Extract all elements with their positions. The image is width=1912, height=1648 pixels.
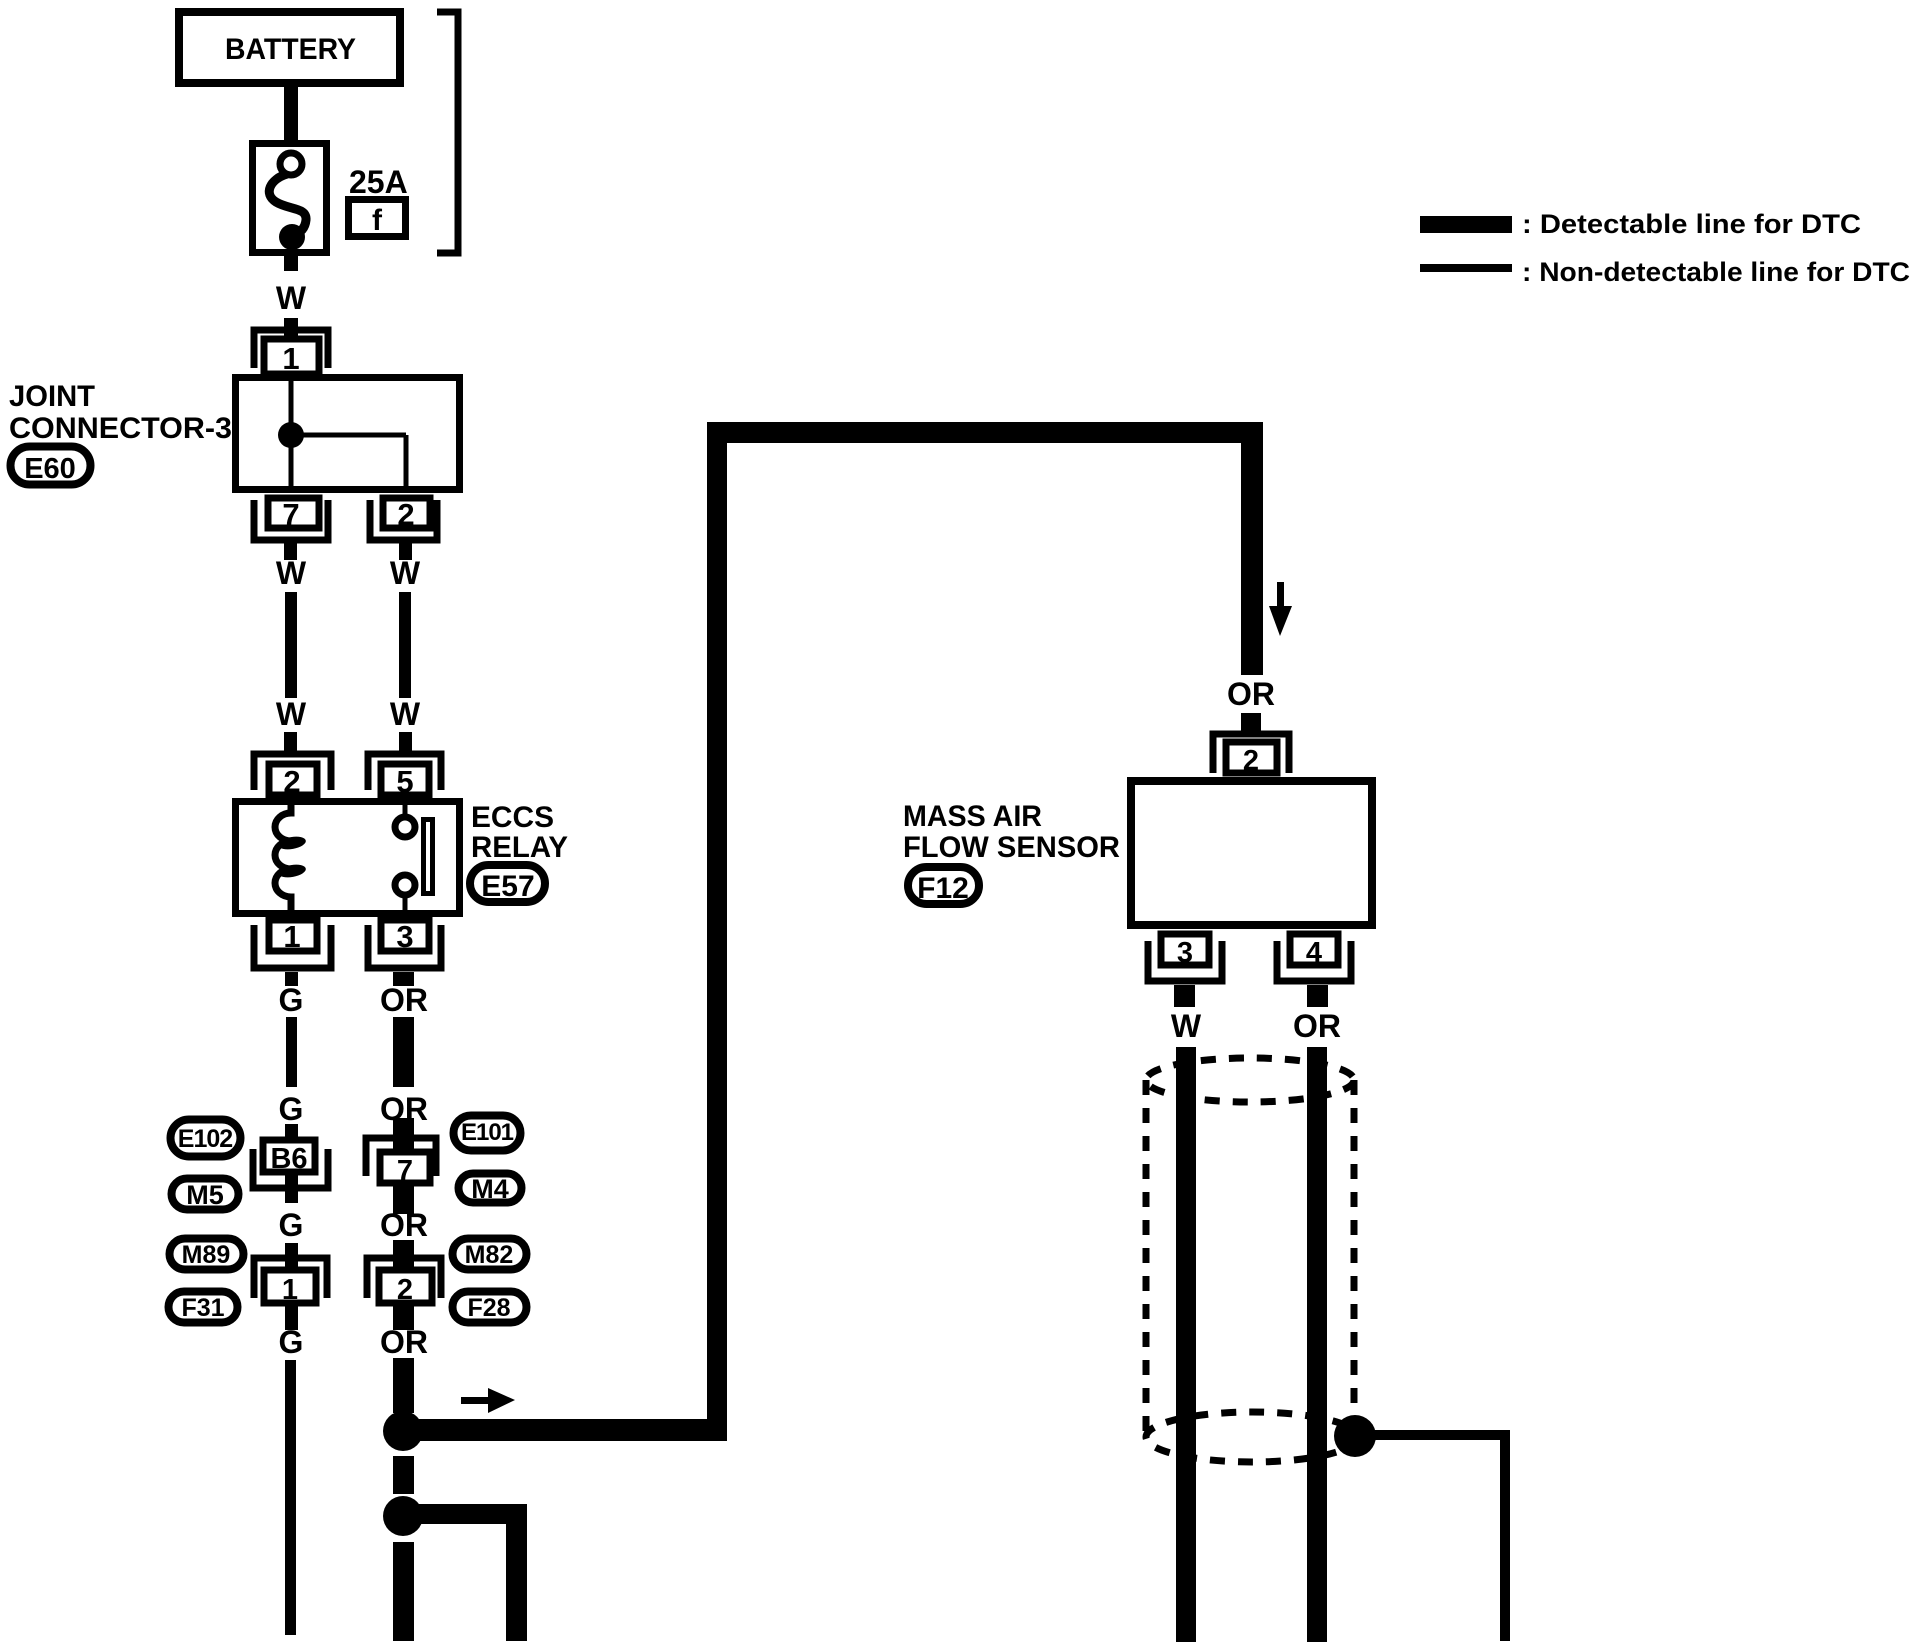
connector id oval F28	[453, 1292, 527, 1323]
svg-text:W: W	[390, 555, 421, 591]
connector 2 box	[379, 1270, 432, 1306]
svg-text:G: G	[279, 982, 304, 1018]
connector id oval E57	[470, 865, 545, 903]
mafs pin 3 shell bracket	[1148, 941, 1222, 981]
wire G stub into B6	[285, 1124, 298, 1140]
svg-text:OR: OR	[380, 1324, 428, 1360]
svg-text:G: G	[279, 1324, 304, 1360]
junction node dot 1	[383, 1411, 423, 1451]
wire G stub below relay pin 1	[285, 972, 298, 986]
wire OR thick long mafs	[1307, 1047, 1327, 1642]
wire OR thick vertical drop	[506, 1504, 527, 1641]
wire G stub below B6	[285, 1175, 298, 1203]
wire G stub below 1	[285, 1306, 298, 1330]
svg-text:OR: OR	[1227, 676, 1275, 712]
svg-text:M5: M5	[186, 1180, 224, 1210]
connector id oval M82	[453, 1239, 527, 1270]
connector B6 box	[263, 1140, 315, 1175]
wire OR stub below mafs pin 4	[1307, 985, 1328, 1007]
svg-text:W: W	[1171, 1008, 1202, 1044]
wire OR thick	[393, 1017, 414, 1087]
joint connector pin 2 box	[383, 497, 430, 532]
svg-text:E57: E57	[481, 870, 534, 903]
connector id oval F31	[169, 1292, 238, 1323]
label MASS AIR FLOW SENSOR	[903, 800, 1120, 864]
wire between junction dots	[393, 1456, 414, 1494]
joint connector-3 body box	[236, 378, 460, 490]
connector id oval M5	[172, 1179, 239, 1211]
wire OR stub below relay pin 3 (thick detectable)	[393, 972, 414, 986]
eccs relay pin 1 box	[269, 919, 317, 954]
connector 7 shell bracket	[366, 1138, 436, 1176]
svg-text:2: 2	[397, 497, 414, 532]
wire to joint connector pin 1	[284, 318, 298, 336]
svg-text:OR: OR	[1293, 1008, 1341, 1044]
mafs pin 4 shell bracket	[1277, 941, 1351, 981]
mafs pin 4 box	[1290, 934, 1338, 969]
wire W stub to relay pin 2	[284, 732, 297, 752]
wire OR thick horizontal top	[707, 422, 1263, 443]
wire W stub below mafs pin 3	[1174, 985, 1195, 1007]
svg-text:CONNECTOR-3: CONNECTOR-3	[9, 412, 232, 445]
wire G	[286, 1017, 297, 1087]
svg-text:MASS AIR: MASS AIR	[903, 800, 1042, 833]
wire OR stub below 7	[393, 1186, 414, 1214]
connector id oval E60	[11, 447, 91, 486]
connector 2 shell bracket	[367, 1258, 441, 1298]
shield ground wire thin	[1360, 1435, 1505, 1641]
svg-text:FLOW SENSOR: FLOW SENSOR	[903, 831, 1120, 864]
wire OR thick horizontal from junction 2	[403, 1504, 527, 1524]
wire OR stub to MAFS pin 2	[1241, 713, 1261, 733]
svg-text:4: 4	[1306, 937, 1322, 969]
svg-text:BATTERY: BATTERY	[225, 33, 356, 66]
connector 1 box	[264, 1270, 316, 1306]
svg-text:JOINT: JOINT	[9, 380, 95, 413]
wire W stub to relay pin 5	[399, 732, 412, 752]
svg-text:M4: M4	[471, 1174, 509, 1204]
eccs relay pin 3 box	[381, 919, 429, 954]
svg-text:3: 3	[396, 919, 413, 954]
wire W stub below pin 2	[399, 543, 412, 560]
svg-text:3: 3	[1177, 937, 1193, 969]
legend detectable line sample	[1420, 216, 1512, 233]
eccs relay pin 5 box	[381, 764, 429, 799]
svg-text:M82: M82	[465, 1241, 514, 1269]
svg-text:F28: F28	[467, 1294, 510, 1322]
wire W thick long mafs	[1176, 1047, 1196, 1642]
svg-text:B6: B6	[270, 1143, 307, 1175]
svg-text:E101: E101	[461, 1119, 514, 1146]
shield dashed cylinder	[1146, 1058, 1358, 1462]
svg-text:2: 2	[1243, 745, 1259, 777]
joint connector pin 2 shell bracket	[370, 500, 437, 540]
svg-text:f: f	[372, 204, 383, 237]
wire OR down to junction	[393, 1358, 414, 1413]
flow direction arrow right	[461, 1388, 515, 1413]
wire OR below junction 2	[393, 1542, 414, 1641]
svg-text:E102: E102	[178, 1125, 232, 1153]
svg-text:W: W	[276, 280, 307, 316]
joint connector internal junction node	[278, 422, 304, 448]
svg-text:25A: 25A	[349, 164, 408, 200]
svg-text:M89: M89	[182, 1241, 231, 1269]
mafs pin 2 box	[1226, 742, 1277, 777]
joint connector pin 1 box	[264, 339, 319, 376]
legend non-detectable line sample	[1420, 264, 1512, 272]
svg-text:ECCS: ECCS	[471, 801, 554, 834]
wire OR thick vertical rise	[707, 422, 727, 1441]
svg-text:: Non-detectable line for DTC: : Non-detectable line for DTC	[1522, 257, 1910, 287]
relay coil	[275, 801, 307, 917]
battery	[179, 12, 400, 83]
svg-text:G: G	[279, 1207, 304, 1243]
flow direction arrow down	[1269, 582, 1292, 636]
wire W right long	[399, 592, 411, 698]
svg-text:G: G	[279, 1091, 304, 1127]
wire OR stub into 7	[393, 1118, 414, 1152]
svg-text:: Detectable line for DTC: : Detectable line for DTC	[1522, 209, 1861, 239]
wire fuse down	[284, 256, 298, 271]
svg-text:7: 7	[397, 1155, 413, 1187]
eccs relay pin 2 box	[269, 764, 317, 799]
mass air flow sensor body box	[1131, 781, 1372, 925]
svg-text:OR: OR	[380, 982, 428, 1018]
wire OR stub below 2	[393, 1306, 414, 1330]
connector id oval E101	[454, 1116, 521, 1151]
wire W stub below pin 7	[284, 543, 297, 560]
label JOINT CONNECTOR-3	[9, 380, 232, 445]
svg-text:F31: F31	[181, 1294, 224, 1322]
svg-text:OR: OR	[380, 1207, 428, 1243]
wire OR thick vertical down to MAFS	[1241, 422, 1263, 675]
svg-text:F12: F12	[917, 872, 969, 905]
svg-text:W: W	[390, 696, 421, 732]
svg-text:1: 1	[282, 341, 299, 376]
joint connector internal bus wire	[291, 377, 406, 493]
wire battery to fuse	[284, 87, 298, 141]
svg-text:7: 7	[282, 497, 299, 532]
mafs pin 3 box	[1161, 934, 1209, 969]
connector 7 box	[380, 1152, 430, 1187]
joint connector pin 1 shell bracket	[254, 330, 328, 368]
wire OR thick horizontal from junction 1	[403, 1419, 727, 1441]
joint connector pin 7 box	[268, 497, 319, 532]
svg-text:W: W	[276, 555, 307, 591]
eccs relay body box	[236, 802, 460, 914]
connector B6 shell bracket	[253, 1149, 328, 1188]
eccs relay pin 1 shell bracket	[254, 925, 331, 968]
wire OR stub into 2	[393, 1240, 414, 1267]
fuse id box f	[349, 200, 406, 238]
battery group bracket	[437, 12, 458, 253]
connector id oval M89	[170, 1239, 244, 1270]
fuse f	[253, 144, 327, 253]
svg-text:W: W	[276, 696, 307, 732]
connector id oval M4	[459, 1174, 522, 1205]
eccs relay pin 2 shell bracket	[254, 754, 331, 790]
connector id oval E102	[171, 1120, 241, 1157]
relay switch contact	[395, 798, 433, 914]
wire W left long	[285, 592, 297, 698]
svg-text:E60: E60	[24, 453, 76, 485]
svg-text:RELAY: RELAY	[471, 831, 568, 864]
connector 1 shell bracket	[254, 1258, 327, 1298]
wire G stub into 1	[285, 1243, 298, 1267]
label ECCS RELAY	[471, 801, 568, 864]
svg-text:2: 2	[283, 764, 300, 799]
svg-text:1: 1	[283, 919, 300, 954]
mafs pin 2 shell bracket	[1213, 734, 1289, 773]
junction node dot 2	[383, 1496, 423, 1536]
wire G long thin to bottom	[285, 1360, 296, 1635]
svg-text:2: 2	[397, 1274, 413, 1306]
joint connector pin 7 shell bracket	[254, 500, 328, 540]
connector id oval F12	[908, 867, 979, 905]
eccs relay pin 3 shell bracket	[368, 925, 441, 968]
eccs relay pin 5 shell bracket	[368, 754, 441, 790]
svg-text:1: 1	[282, 1274, 298, 1306]
shield junction node dot	[1334, 1415, 1376, 1457]
svg-text:5: 5	[396, 764, 413, 799]
